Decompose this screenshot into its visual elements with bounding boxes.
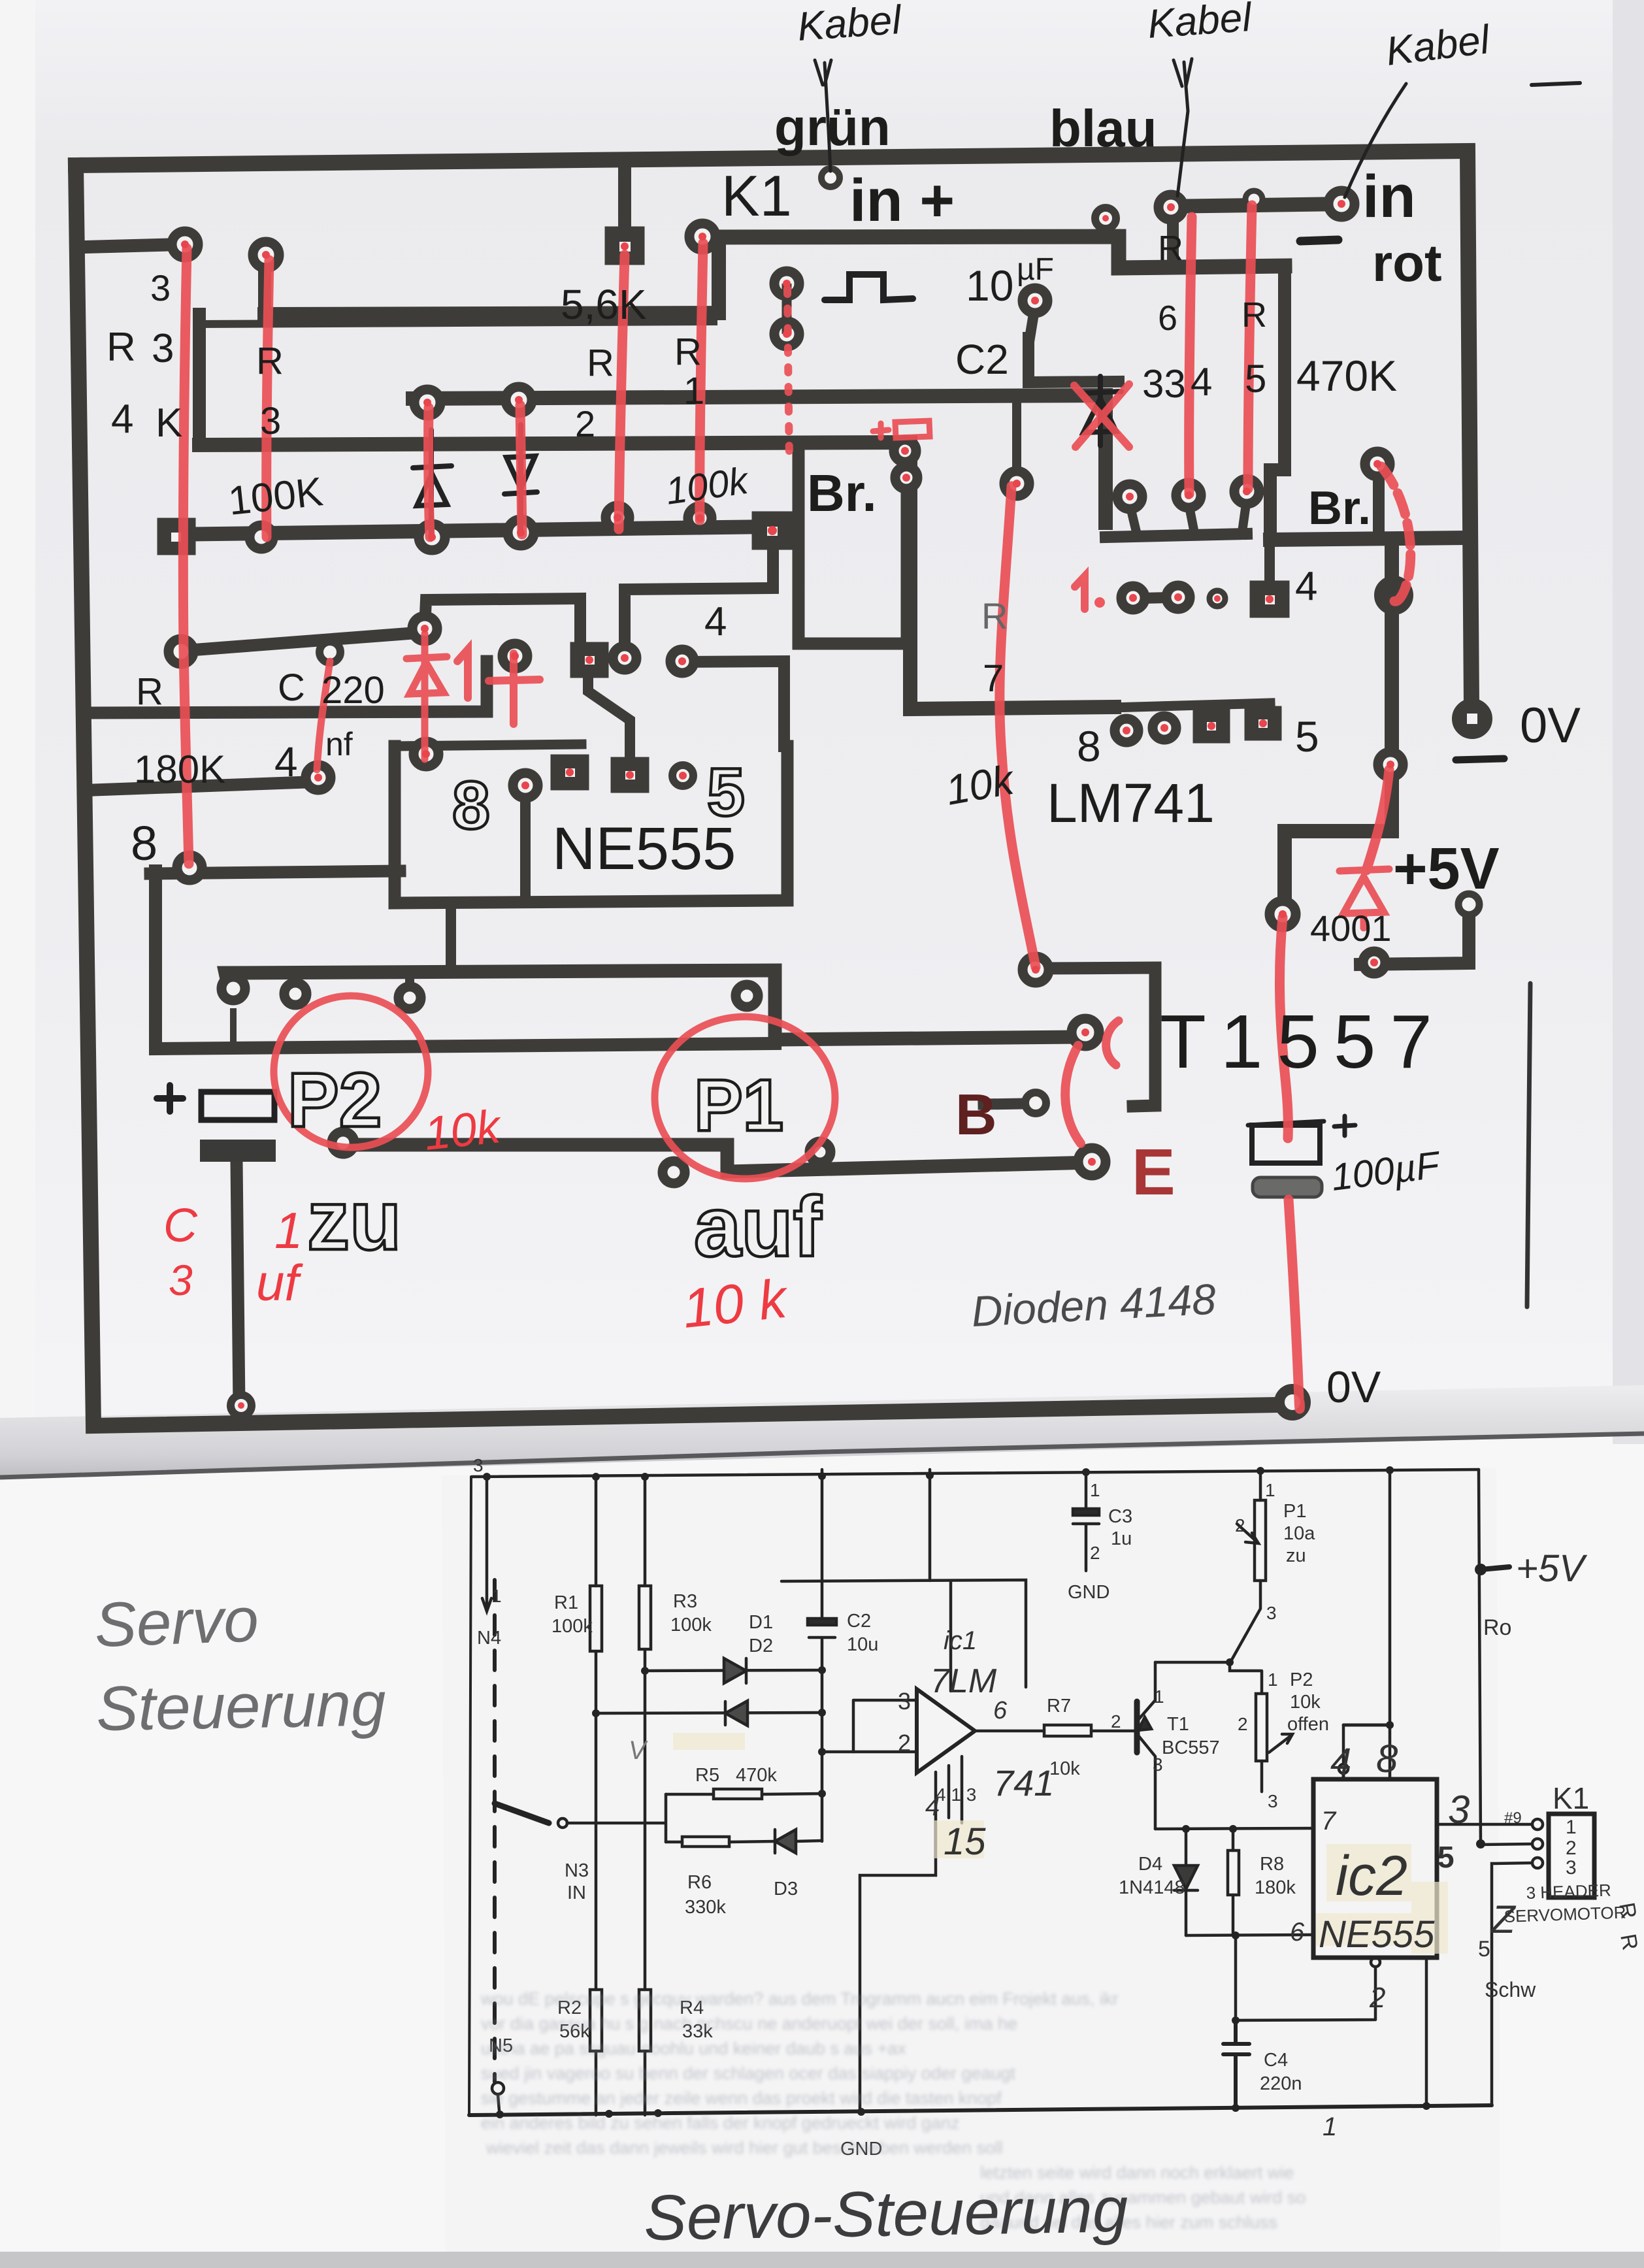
- svg-text:K1: K1: [721, 163, 792, 228]
- pad jumper1 left: [412, 616, 437, 641]
- wire stub to pad R3-4K: [85, 244, 182, 247]
- svg-text:1: 1: [274, 1202, 303, 1259]
- Kabel leader line 3: [1345, 84, 1406, 197]
- svg-text:2: 2: [1111, 1711, 1121, 1732]
- svg-text:K1: K1: [1553, 1781, 1589, 1815]
- pad P1 top: [736, 985, 758, 1007]
- wire resistor pads bar: [167, 527, 773, 534]
- svg-text:7: 7: [1321, 1807, 1337, 1835]
- svg-text:in +: in +: [849, 167, 955, 234]
- Kabel dash 3: [1532, 83, 1580, 85]
- wire inner box top thin: [199, 321, 714, 324]
- svg-text:3: 3: [1266, 1603, 1277, 1623]
- resistor R3: [644, 1477, 647, 2115]
- pad in- rot: [1328, 191, 1355, 217]
- svg-text:220: 220: [321, 669, 385, 712]
- potentiometer P2: [1260, 1671, 1264, 1792]
- wire schematic left edge: [469, 1477, 471, 2114]
- svg-text:Servo: Servo: [93, 1585, 259, 1660]
- wire N4 input: [482, 1477, 491, 1611]
- red pad dot group a: [181, 240, 189, 248]
- resistor R1: [595, 1477, 598, 1713]
- Kabel arrow 1: [815, 60, 831, 85]
- svg-text:C2: C2: [955, 336, 1009, 383]
- svg-text:µF: µF: [1017, 252, 1054, 287]
- red jumper 100k b: [700, 243, 703, 520]
- pad in- small: [1245, 191, 1262, 208]
- wire net 5,6K: [265, 239, 719, 314]
- wire zu lower line: [337, 1145, 1092, 1172]
- red jumper C220 vert: [421, 634, 429, 759]
- wire schematic top rail: [472, 1470, 1479, 1477]
- pad transistor C: [1072, 1019, 1099, 1046]
- svg-text:Kabel: Kabel: [1146, 0, 1254, 47]
- red pad dot group c: [1123, 727, 1130, 734]
- svg-text:R6: R6: [687, 1872, 712, 1893]
- pad square before Br: [757, 516, 788, 545]
- wire IC2 pin4: [1343, 1725, 1390, 1779]
- pad jumper top: [774, 271, 799, 296]
- wire Br box left: [793, 442, 805, 644]
- wire tick below pad: [230, 1011, 237, 1044]
- pad Br right b: [895, 467, 917, 489]
- svg-text:6: 6: [993, 1697, 1008, 1724]
- schematic sheet (photocopy): [442, 1468, 1500, 2252]
- wire P2 pad stubs: [295, 972, 410, 993]
- pad nf: [306, 765, 331, 790]
- handwriting Servo pencil: [93, 1585, 386, 1744]
- svg-text:10: 10: [966, 261, 1013, 310]
- paper top sheet: [0, 0, 1644, 1479]
- svg-text:5: 5: [1245, 357, 1266, 401]
- svg-text:1: 1: [491, 1586, 502, 1606]
- svg-text:220n: 220n: [1260, 2073, 1302, 2094]
- yellow correction patches: [673, 1733, 1448, 1954]
- red pad dot group b: [1167, 203, 1175, 211]
- diode symbol D-b hand: [504, 425, 537, 531]
- Kabel arrow 2: [1174, 59, 1192, 86]
- svg-text:3: 3: [1448, 1788, 1470, 1832]
- wire LM741 block left+bottom: [910, 442, 1114, 709]
- capacitor C4: [1223, 2020, 1249, 2106]
- red X over diode: [1074, 384, 1129, 447]
- pad zu lower left: [332, 1132, 354, 1154]
- wire pin6 IC2: [1186, 1935, 1313, 1935]
- pad rowY small: [1209, 591, 1225, 606]
- capacitor 100uF bottom bar: [1253, 1177, 1322, 1197]
- pad ring 0V branch: [1378, 752, 1403, 777]
- wire IC2 pin3 to K1: [1437, 1823, 1532, 1826]
- Kabel leader line 1: [825, 63, 830, 171]
- red dot after 1: [1094, 597, 1105, 608]
- svg-text:15: 15: [944, 1820, 986, 1863]
- red circle P2: [274, 996, 428, 1147]
- svg-text:wou dE pelscupe s gecquy warde: wou dE pelscupe s gecquy warden? aus dem…: [480, 1989, 1118, 2009]
- wire in- pad bar: [1164, 204, 1343, 206]
- pad capacitor C2: [1023, 288, 1047, 313]
- Kabel leader line 2: [1177, 62, 1188, 196]
- red plus box near Br: [873, 421, 930, 438]
- pad C220 left: [169, 639, 193, 664]
- pad transistor B: [1025, 1093, 1046, 1113]
- svg-text:180k: 180k: [1255, 1877, 1296, 1898]
- red jumper diode a: [429, 408, 430, 537]
- svg-text:sued jin vageroo su benn der: sued jin vageroo su benn der schlagen oc…: [481, 2063, 1016, 2083]
- wire schematic bottom rail: [469, 2105, 1492, 2115]
- pad zu line 3: [399, 987, 421, 1009]
- svg-text:2: 2: [898, 1730, 911, 1756]
- red letter C arc: [1106, 1021, 1119, 1065]
- svg-text:T1557: T1557: [1160, 999, 1447, 1084]
- connector K1 box: [1549, 1814, 1594, 1898]
- svg-text:P2: P2: [1290, 1669, 1313, 1690]
- svg-text:V: V: [629, 1736, 648, 1765]
- capacitor C3 schematic: [1073, 1472, 1099, 1571]
- integrated circuit IC2 box: [1313, 1779, 1437, 1958]
- svg-text:R: R: [256, 340, 284, 382]
- wire 180K line y1090: [93, 661, 487, 713]
- +5V arrow tick: [1481, 1567, 1509, 1570]
- pad rowY square: [1255, 585, 1285, 613]
- svg-text:vor dia gassua hu s g nach nch: vor dia gassua hu s g nach nchscu ne and…: [481, 2014, 1017, 2033]
- capacitor C3 plus sign: [157, 1085, 183, 1111]
- wire net-8 line y1336: [150, 871, 400, 874]
- svg-text:in: in: [1362, 163, 1416, 230]
- svg-text:C: C: [163, 1200, 198, 1252]
- diode symbol D-a hand: [413, 430, 452, 534]
- svg-text:GND: GND: [1068, 1582, 1110, 1603]
- svg-text:4: 4: [274, 738, 298, 785]
- pad node K1 square: [610, 231, 640, 260]
- red jumper R3: [267, 260, 269, 537]
- pad K1 ring on border: [821, 169, 840, 187]
- wire Br box bottom: [798, 638, 907, 650]
- red arc C220 pad: [317, 661, 330, 770]
- pad zu line 2: [284, 983, 306, 1005]
- wire GND net op-amp: [860, 1772, 936, 2112]
- svg-text:5,6K: 5,6K: [561, 281, 647, 328]
- svg-text:T1: T1: [1167, 1714, 1189, 1735]
- svg-text:4: 4: [111, 397, 133, 442]
- pad auf step: [663, 1161, 685, 1183]
- terminal 0V bottom: [1279, 1389, 1306, 1415]
- 0V underline right: [1456, 759, 1504, 760]
- scanner gray band bottom: [0, 2252, 1644, 2268]
- in- minus dash: [1300, 240, 1338, 241]
- svg-text:LM741: LM741: [1047, 772, 1215, 834]
- svg-text:IN: IN: [567, 1882, 586, 1903]
- wire net in+: [702, 237, 1285, 268]
- shadow band above sheet edge: [0, 1385, 1644, 1479]
- svg-text:R: R: [674, 331, 702, 373]
- svg-text:3: 3: [1268, 1791, 1278, 1811]
- dashed margin line: [493, 1580, 497, 2082]
- svg-text:rot: rot: [1372, 234, 1442, 292]
- transistor T1 BC557: [1134, 1701, 1140, 1752]
- red jumper R3-4K: [183, 248, 189, 864]
- pad node R3: [253, 242, 279, 268]
- pad jumper bottom: [774, 321, 799, 346]
- wiper P2: [1269, 1734, 1292, 1752]
- svg-text:+5V: +5V: [1393, 836, 1500, 902]
- svg-text:1: 1: [1154, 1686, 1164, 1707]
- wire pads row1 bar: [1106, 534, 1247, 537]
- red numeral 1 C220: [457, 649, 468, 698]
- svg-text:5: 5: [1478, 1937, 1490, 1962]
- red dotted jumper: [787, 289, 789, 457]
- pad +5V a: [1458, 894, 1479, 915]
- pad row1 b: [1176, 483, 1201, 508]
- wire NE555 to zu-line stub: [446, 902, 456, 972]
- resistor R2: [595, 1713, 598, 2115]
- pad LM741 row2 c: [1198, 714, 1225, 738]
- wire C220 line: [182, 633, 421, 651]
- svg-text:BC557: BC557: [1162, 1737, 1220, 1758]
- pad in- 1: [1159, 195, 1183, 220]
- svg-text:grün: grün: [774, 98, 891, 156]
- pad bar 100k b: [688, 506, 712, 530]
- pad row3 b: [613, 646, 636, 670]
- svg-text:zu: zu: [307, 1172, 401, 1268]
- svg-text:4: 4: [1330, 1741, 1351, 1783]
- svg-text:D3: D3: [774, 1879, 798, 1899]
- pad NE555 sq a: [555, 759, 584, 785]
- capacitor C2 schematic: [809, 1470, 835, 1841]
- svg-text:330k: 330k: [685, 1897, 726, 1918]
- pad resistor bar 2: [250, 525, 273, 549]
- node dots schematic: [483, 1466, 1487, 2118]
- wire net-2 long line: [199, 442, 907, 445]
- svg-text:5: 5: [707, 755, 745, 830]
- red diode 4001: [1340, 869, 1389, 928]
- svg-text:Kabel: Kabel: [796, 0, 904, 50]
- svg-text:4: 4: [704, 599, 727, 644]
- wire stub pad x1556: [1012, 397, 1021, 474]
- svg-text:0V: 0V: [1326, 1362, 1381, 1412]
- pad auf mid: [810, 1142, 830, 1162]
- blurred print text rows: [480, 1989, 1306, 2232]
- wire jumper bar1: [425, 599, 589, 657]
- svg-text:1N4148: 1N4148: [1119, 1877, 1185, 1898]
- wire row1 diagonal stubs: [1130, 499, 1247, 534]
- svg-text:10k: 10k: [1290, 1692, 1321, 1713]
- terminal 0V right big: [1456, 703, 1488, 734]
- svg-text:1: 1: [1323, 2112, 1337, 2141]
- red jumper in+ a: [1189, 217, 1192, 494]
- wire NE555 S-trace: [588, 665, 630, 774]
- pulse waveform symbol: [825, 274, 913, 300]
- svg-text:R: R: [981, 595, 1008, 636]
- svg-text:8: 8: [131, 816, 157, 870]
- svg-text:ein anderes bild zu sehen fall: ein anderes bild zu sehen falls der knop…: [481, 2113, 959, 2133]
- pad x615: [414, 742, 438, 766]
- svg-text:B: B: [955, 1082, 997, 1147]
- wire op-amp pins 1 5: [949, 1756, 962, 1823]
- pad NE555 sq b: [616, 762, 644, 788]
- ruled line right margin: [1527, 983, 1530, 1307]
- pad zu line 1: [222, 977, 245, 1000]
- pad net8 left: [177, 855, 202, 880]
- integrated circuit NE555 box: [395, 746, 787, 903]
- svg-text:1: 1: [683, 370, 704, 412]
- wire NE555 pad8 stem: [520, 787, 531, 898]
- wire T1 collector to P nets: [1155, 1662, 1260, 1671]
- svg-text:+5V: +5V: [1516, 1547, 1588, 1590]
- svg-text:6: 6: [1158, 299, 1177, 338]
- pad rowY b: [1166, 585, 1190, 609]
- wire R3 pad stub: [258, 257, 271, 314]
- pad row3 square: [575, 647, 604, 673]
- resistor R6: [666, 1841, 775, 1842]
- svg-text:E: E: [1132, 1136, 1175, 1209]
- svg-text:470k: 470k: [736, 1765, 777, 1786]
- svg-text:P1: P1: [1283, 1501, 1306, 1522]
- svg-text:C2: C2: [847, 1611, 871, 1632]
- wire stub in- pads: [1167, 214, 1179, 267]
- pad NE555 pin5: [672, 765, 693, 786]
- svg-text:C3: C3: [1108, 1506, 1132, 1527]
- resistor 470K vertical trace: [1270, 266, 1285, 540]
- wire +5V vertical: [1479, 1470, 1532, 1845]
- svg-text:180K: 180K: [134, 748, 225, 791]
- svg-text:N3: N3: [565, 1860, 589, 1881]
- resistor R7: [1044, 1725, 1091, 1736]
- svg-text:33: 33: [1142, 362, 1186, 406]
- wire vertical to 0V region: [1285, 540, 1392, 910]
- svg-text:auf: auf: [694, 1179, 822, 1274]
- pad rowY a: [1121, 586, 1145, 610]
- capacitor 100uF top ticks: [1248, 1116, 1355, 1136]
- pad diode D-b: [508, 519, 534, 546]
- pad row1 x1556: [1004, 471, 1029, 496]
- svg-text:R1: R1: [554, 1592, 578, 1613]
- transistor T1557 bracket: [1046, 968, 1155, 1106]
- svg-text:offen: offen: [1287, 1714, 1329, 1735]
- wire stub Br pad: [1373, 468, 1385, 540]
- pad NE555 pin8: [513, 773, 538, 798]
- wire rail to IC1: [929, 1470, 932, 1581]
- red paren arc B: [1065, 1045, 1081, 1143]
- wire LM741 pads bar: [1111, 703, 1270, 708]
- svg-text:Ro: Ro: [1483, 1615, 1511, 1640]
- wire K1 square pad stub: [618, 162, 631, 237]
- wire net-4 line: [682, 661, 784, 746]
- svg-text:8: 8: [452, 768, 490, 844]
- svg-text:741: 741: [993, 1762, 1054, 1803]
- svg-text:2: 2: [575, 403, 595, 444]
- svg-text:NE555: NE555: [1319, 1913, 1435, 1956]
- svg-text:3: 3: [169, 1256, 193, 1304]
- svg-text:1u: 1u: [1111, 1528, 1132, 1549]
- wire pin6 output: [975, 1730, 1137, 1733]
- wire 180K line y1208: [93, 781, 325, 790]
- wire sq pad to row3: [625, 531, 773, 657]
- capacitor C3 bottom plate: [200, 1140, 276, 1162]
- pad bar 100k a: [606, 506, 629, 529]
- resistor R4: [639, 1990, 651, 2051]
- wire Br2 horizontal: [1270, 538, 1468, 540]
- svg-text:untna ae pa ssguau noohlu und: untna ae pa ssguau noohlu und keiner dau…: [481, 2039, 906, 2058]
- wire PCB border outline: [76, 151, 1471, 704]
- diode D2: [596, 1701, 822, 1725]
- op-amp IC1 triangle: [917, 1689, 975, 1773]
- svg-text:10k: 10k: [1049, 1758, 1080, 1779]
- svg-text:Br.: Br.: [807, 464, 877, 522]
- wire IC2 pin5 down: [1425, 1958, 1428, 2105]
- wire zu upper line: [225, 970, 1079, 1040]
- wire emitter bottom: [1155, 1828, 1313, 1829]
- svg-text:C: C: [278, 666, 305, 709]
- capacitor C2 box: [1028, 338, 1119, 382]
- pad diode D-a: [419, 524, 445, 550]
- red line pad to diode: [1366, 770, 1389, 870]
- svg-text:2: 2: [1235, 1515, 1245, 1536]
- svg-text:blau: blau: [1049, 99, 1157, 157]
- svg-text:nf: nf: [325, 726, 353, 763]
- pad +5V b: [1363, 951, 1385, 974]
- svg-text:R8: R8: [1260, 1854, 1284, 1875]
- svg-text:N4: N4: [477, 1628, 501, 1649]
- pad LM741 row2 8: [1115, 719, 1138, 742]
- diode D3: [775, 1830, 822, 1853]
- wire +5V L trace: [1360, 908, 1469, 964]
- wire C2 pad stub: [1030, 306, 1035, 338]
- svg-text:Z: Z: [1490, 1898, 1517, 1941]
- svg-text:1: 1: [1265, 1480, 1275, 1500]
- red cross C220: [489, 653, 540, 724]
- svg-text:R: R: [587, 342, 614, 384]
- resistor R8: [1232, 1829, 1235, 1935]
- svg-text:Schw: Schw: [1485, 1978, 1536, 2001]
- svg-text:Br.: Br.: [1308, 482, 1371, 534]
- svg-text:C4: C4: [1264, 2050, 1288, 2071]
- pad node R3-4K: [172, 231, 198, 257]
- svg-text:P2: P2: [288, 1057, 382, 1143]
- svg-text:10a: 10a: [1283, 1523, 1315, 1544]
- svg-text:8: 8: [1077, 722, 1101, 770]
- svg-text:K: K: [156, 401, 182, 446]
- wire inner box left edge: [193, 314, 206, 445]
- svg-text:10k: 10k: [421, 1100, 505, 1160]
- wire switch to R5 R6: [567, 1794, 666, 1842]
- pad Br right a: [894, 440, 916, 462]
- svg-text:4001: 4001: [1310, 908, 1392, 949]
- capacitor C3 stem: [237, 1162, 239, 1406]
- pad transistor E: [1078, 1148, 1106, 1175]
- pad node net2 b: [506, 387, 532, 413]
- resistor R5: [666, 1794, 822, 1794]
- svg-text:2: 2: [1566, 1837, 1577, 1859]
- diode D1: [645, 1658, 822, 1683]
- svg-text:uf: uf: [256, 1254, 303, 1311]
- wire pin2 IC2: [1236, 1935, 1375, 2020]
- svg-text:10 k: 10 k: [680, 1267, 792, 1339]
- svg-text:sie gestumme an jeder zeile we: sie gestumme an jeder zeile wenn das pro…: [481, 2088, 1002, 2108]
- svg-text:4: 4: [1191, 360, 1212, 404]
- pad to 100uF: [1270, 901, 1296, 927]
- svg-text:Steuerung: Steuerung: [95, 1669, 386, 1744]
- pad C220 mid: [320, 642, 340, 663]
- red line through T1557: [1279, 917, 1288, 1138]
- terminal N5: [492, 2082, 504, 2094]
- svg-text:R: R: [136, 670, 163, 713]
- svg-text:4: 4: [1295, 564, 1317, 609]
- wire B pad stub: [983, 1104, 1024, 1104]
- svg-text:100k: 100k: [551, 1616, 593, 1637]
- pad LM741 row2 d: [1249, 711, 1277, 736]
- svg-text:7: 7: [983, 657, 1004, 700]
- potentiometer P1: [1231, 1470, 1260, 1661]
